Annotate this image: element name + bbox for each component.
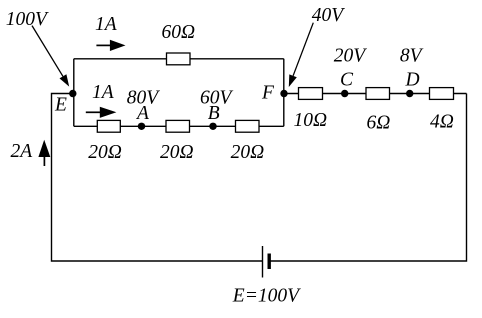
svg-text:B: B [208, 103, 220, 124]
svg-text:4Ω: 4Ω [430, 112, 454, 133]
svg-text:8V: 8V [400, 46, 424, 67]
svg-text:20Ω: 20Ω [88, 142, 122, 163]
svg-text:D: D [405, 70, 420, 91]
svg-text:20V: 20V [334, 46, 368, 67]
svg-text:F: F [261, 83, 275, 104]
svg-text:100V: 100V [6, 9, 49, 30]
svg-text:40V: 40V [312, 5, 346, 26]
svg-text:20Ω: 20Ω [160, 142, 194, 163]
svg-text:20Ω: 20Ω [231, 142, 265, 163]
svg-text:6Ω: 6Ω [367, 113, 391, 134]
svg-text:10Ω: 10Ω [294, 110, 328, 131]
svg-text:E=100V: E=100V [232, 286, 301, 307]
svg-text:A: A [135, 103, 149, 124]
svg-text:1A: 1A [92, 82, 114, 103]
svg-text:E: E [54, 95, 67, 116]
svg-text:1A: 1A [95, 14, 117, 35]
svg-text:60Ω: 60Ω [162, 22, 196, 43]
svg-text:2A: 2A [11, 141, 33, 162]
svg-text:C: C [340, 70, 354, 91]
